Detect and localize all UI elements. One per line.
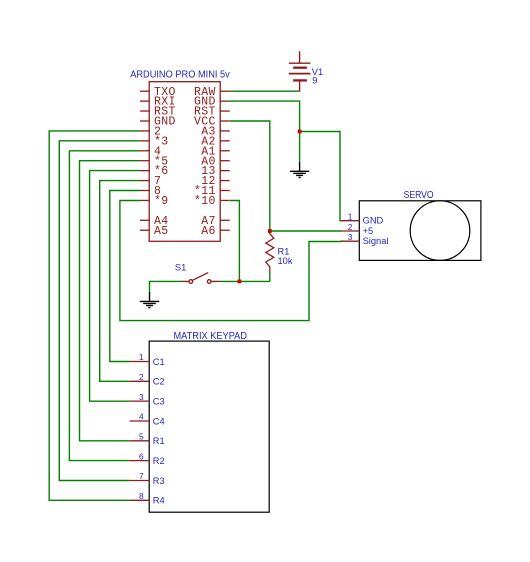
pin stub U1 right 13: [220, 170, 230, 172]
svg-text:C4: C4: [153, 416, 165, 426]
wire: node J1 to servo pin 1 GND: [300, 132, 341, 221]
svg-text:A6: A6: [201, 225, 216, 238]
svg-text:C3: C3: [153, 397, 165, 407]
svg-text:4: 4: [139, 412, 144, 422]
pin stub U1 right VCC: [220, 120, 230, 122]
pin stub U1 right A1: [220, 150, 230, 152]
servo motor circle: [410, 201, 470, 261]
pin stub U1 right RST: [220, 110, 230, 112]
pin stub 3 of servo: [341, 240, 360, 242]
pin stub U1 right 12: [220, 180, 230, 182]
pin stub 6 of keypad: [130, 460, 150, 462]
pin stub U1 right A0: [220, 160, 230, 162]
pin stub U1 right A3: [220, 130, 230, 132]
wire: node J2 to servo pin 2 +5: [270, 230, 341, 232]
pin stub U1 left RXI: [140, 100, 149, 102]
svg-text:5: 5: [139, 432, 144, 442]
pin stub U1 left *9: [140, 199, 149, 201]
svg-text:+5: +5: [363, 226, 374, 236]
svg-text:ARDUINO PRO MINI 5v: ARDUINO PRO MINI 5v: [130, 70, 230, 81]
pin stub 1 of servo: [341, 220, 360, 222]
node J2 (+5 net) junction dot: [268, 229, 272, 233]
svg-text:*10: *10: [194, 195, 216, 208]
wire: U1 RAW to battery V1 negative: [230, 90, 299, 92]
pin stub U1 right *11: [220, 190, 230, 192]
wire: U1 pin *5 to keypad pin 5: [80, 161, 141, 441]
node J1 (GND net) junction dot: [298, 130, 302, 134]
pin stub U1 left A5: [140, 229, 149, 231]
svg-text:8: 8: [139, 491, 144, 501]
pin stub U1 right A2: [220, 140, 230, 142]
pin stub U1 right RAW: [220, 90, 230, 92]
pin stub 8 of keypad: [130, 499, 150, 501]
svg-text:R1: R1: [278, 246, 290, 256]
svg-text:Signal: Signal: [363, 236, 389, 246]
svg-text:R2: R2: [153, 456, 165, 466]
pin stub U1 right A7: [220, 219, 230, 221]
pin stub 7 of keypad: [130, 479, 150, 481]
wire: U1 VCC to node J2: [230, 121, 270, 231]
ground near battery (GND net): [290, 162, 309, 178]
pin stub 2 of keypad: [130, 380, 150, 382]
pin stub U1 left 4: [140, 150, 149, 152]
node J3 (switch/R1/pin10 net) junction dot: [238, 280, 242, 284]
pin stub U1 right *10: [220, 199, 230, 201]
svg-text:R3: R3: [153, 476, 165, 486]
pin stub U1 left TXO: [140, 90, 149, 92]
wire: resistor R1 bottom to node J3 rail: [269, 272, 271, 282]
wire: U1 pin 4 to keypad pin 6: [69, 151, 140, 461]
pin stub U1 left 7: [140, 180, 149, 182]
svg-text:2: 2: [348, 222, 353, 232]
svg-text:MATRIX KEYPAD: MATRIX KEYPAD: [174, 331, 248, 342]
svg-text:R4: R4: [153, 496, 165, 506]
svg-text:10k: 10k: [278, 256, 293, 266]
wire: U1 pin *3 to keypad pin 7: [59, 141, 140, 481]
matrix keypad component box: [149, 341, 269, 512]
pin stub U1 left RST: [140, 110, 149, 112]
svg-text:1: 1: [139, 352, 144, 362]
wire: switch S1 left to ground: [150, 281, 182, 292]
svg-text:2: 2: [139, 372, 144, 382]
pin stub U1 left *5: [140, 160, 149, 162]
wire: switch S1 to R1 bottom through node J3: [221, 280, 270, 282]
wire: U1 pin 2 to keypad pin 8: [49, 131, 140, 500]
svg-text:1: 1: [348, 212, 353, 222]
pin stub 5 of keypad: [130, 440, 150, 442]
svg-text:GND: GND: [363, 216, 384, 226]
svg-text:C2: C2: [153, 377, 165, 387]
wire: U1 pin 8 to keypad pin 1: [110, 191, 140, 362]
pin stub U1 left A4: [140, 219, 149, 221]
resistor R1: [266, 231, 274, 272]
wire: servo pin 3 Signal to U1 pin *9: [120, 201, 341, 321]
pin stub U1 left *6: [140, 170, 149, 172]
svg-text:3: 3: [139, 392, 144, 402]
pin stub U1 left GND: [140, 120, 149, 122]
svg-text:R1: R1: [153, 436, 165, 446]
pin stub 1 of keypad: [130, 361, 150, 363]
pin stub 4 of keypad: [130, 420, 150, 422]
pin stub 2 of servo: [341, 230, 360, 232]
servo component box: [359, 201, 481, 261]
pin stub U1 right GND: [220, 100, 230, 102]
svg-text:9: 9: [312, 76, 317, 86]
svg-text:A5: A5: [154, 225, 169, 238]
switch S1: [182, 273, 221, 284]
pin stub U1 right A6: [220, 229, 230, 231]
svg-text:S1: S1: [175, 262, 186, 272]
IC U1 ARDUINO PRO MINI 5v component box: [149, 82, 220, 242]
pin stub U1 left 8: [140, 190, 149, 192]
battery V1: [289, 51, 311, 92]
wire: U1 pin 7 to keypad pin 2: [100, 181, 140, 382]
wire: node J1 down to ground: [299, 132, 301, 162]
wire: U1 pin *10 down to node J3: [230, 201, 240, 282]
pin stub 3 of keypad: [130, 400, 150, 402]
pin stub U1 left *3: [140, 140, 149, 142]
svg-text:*9: *9: [154, 195, 169, 208]
svg-text:7: 7: [139, 471, 144, 481]
pin stub U1 left 2: [140, 130, 149, 132]
svg-text:SERVO: SERVO: [404, 190, 434, 201]
svg-text:3: 3: [348, 232, 353, 242]
wire: U1 pin *6 to keypad pin 3: [90, 171, 140, 402]
svg-text:6: 6: [139, 451, 144, 461]
svg-text:C1: C1: [153, 357, 165, 367]
wire: U1 GND right to node J1: [230, 101, 300, 131]
ground at switch S1: [140, 292, 159, 308]
